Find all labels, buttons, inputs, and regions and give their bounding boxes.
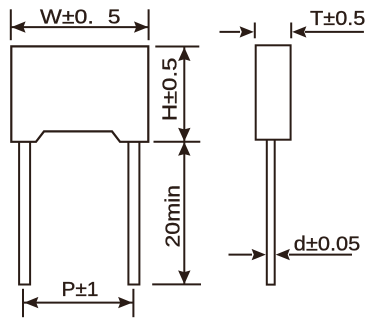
dimension T extension line left bbox=[254, 23, 256, 39]
svg-text:T±0.5: T±0.5 bbox=[310, 7, 365, 30]
dimension 20min arrow bottom bbox=[178, 270, 190, 284]
dimension W extension line right bbox=[148, 9, 150, 40]
dimension P extension line right bbox=[132, 289, 134, 317]
dimension P extension line left bbox=[22, 289, 24, 317]
dimension 20min extension line bottom bbox=[152, 283, 201, 285]
dimension d arrow right bbox=[276, 249, 290, 260]
dimension T arrow left bbox=[240, 26, 254, 37]
lead right (front view) bbox=[128, 142, 139, 285]
svg-text:20min: 20min bbox=[162, 185, 185, 248]
svg-text:d±0.05: d±0.05 bbox=[294, 232, 361, 255]
dimension H arrow top bbox=[178, 47, 190, 61]
dimension P arrow left bbox=[24, 297, 38, 308]
dimension d leader left bbox=[229, 254, 253, 256]
dimension d arrow left bbox=[252, 249, 266, 260]
dimension 20min line bbox=[183, 142, 185, 284]
dimension T leader right bbox=[305, 31, 364, 33]
lead (side view) bbox=[267, 141, 275, 285]
svg-text:H±0.5: H±0.5 bbox=[159, 58, 182, 122]
dimension d leader right bbox=[289, 254, 352, 256]
svg-text:5: 5 bbox=[108, 6, 121, 29]
dimension W extension line left bbox=[10, 9, 12, 40]
dimension W arrow left bbox=[11, 21, 25, 32]
dimension P arrow right bbox=[118, 297, 132, 308]
dimension W arrow right bbox=[134, 21, 148, 32]
dimension T extension line right bbox=[290, 23, 292, 39]
label W±0. 5 bbox=[40, 6, 121, 29]
dimension H extension line top bbox=[155, 46, 199, 48]
dimension P line bbox=[24, 302, 133, 304]
svg-text:W±0.: W±0. bbox=[40, 6, 94, 29]
capacitor body side view bbox=[256, 45, 291, 139]
dimension H extension line bottom bbox=[154, 141, 201, 143]
lead left (front view) bbox=[19, 142, 30, 285]
dimension 20min arrow top bbox=[178, 142, 190, 156]
capacitor body front view bbox=[11, 46, 148, 141]
dimension H arrow bottom bbox=[178, 128, 190, 142]
svg-text:P±1: P±1 bbox=[62, 278, 99, 301]
dimension T leader left bbox=[220, 31, 241, 33]
dimension H line bbox=[183, 47, 185, 141]
dimension T arrow right bbox=[292, 26, 306, 37]
dimension W line bbox=[12, 26, 149, 28]
